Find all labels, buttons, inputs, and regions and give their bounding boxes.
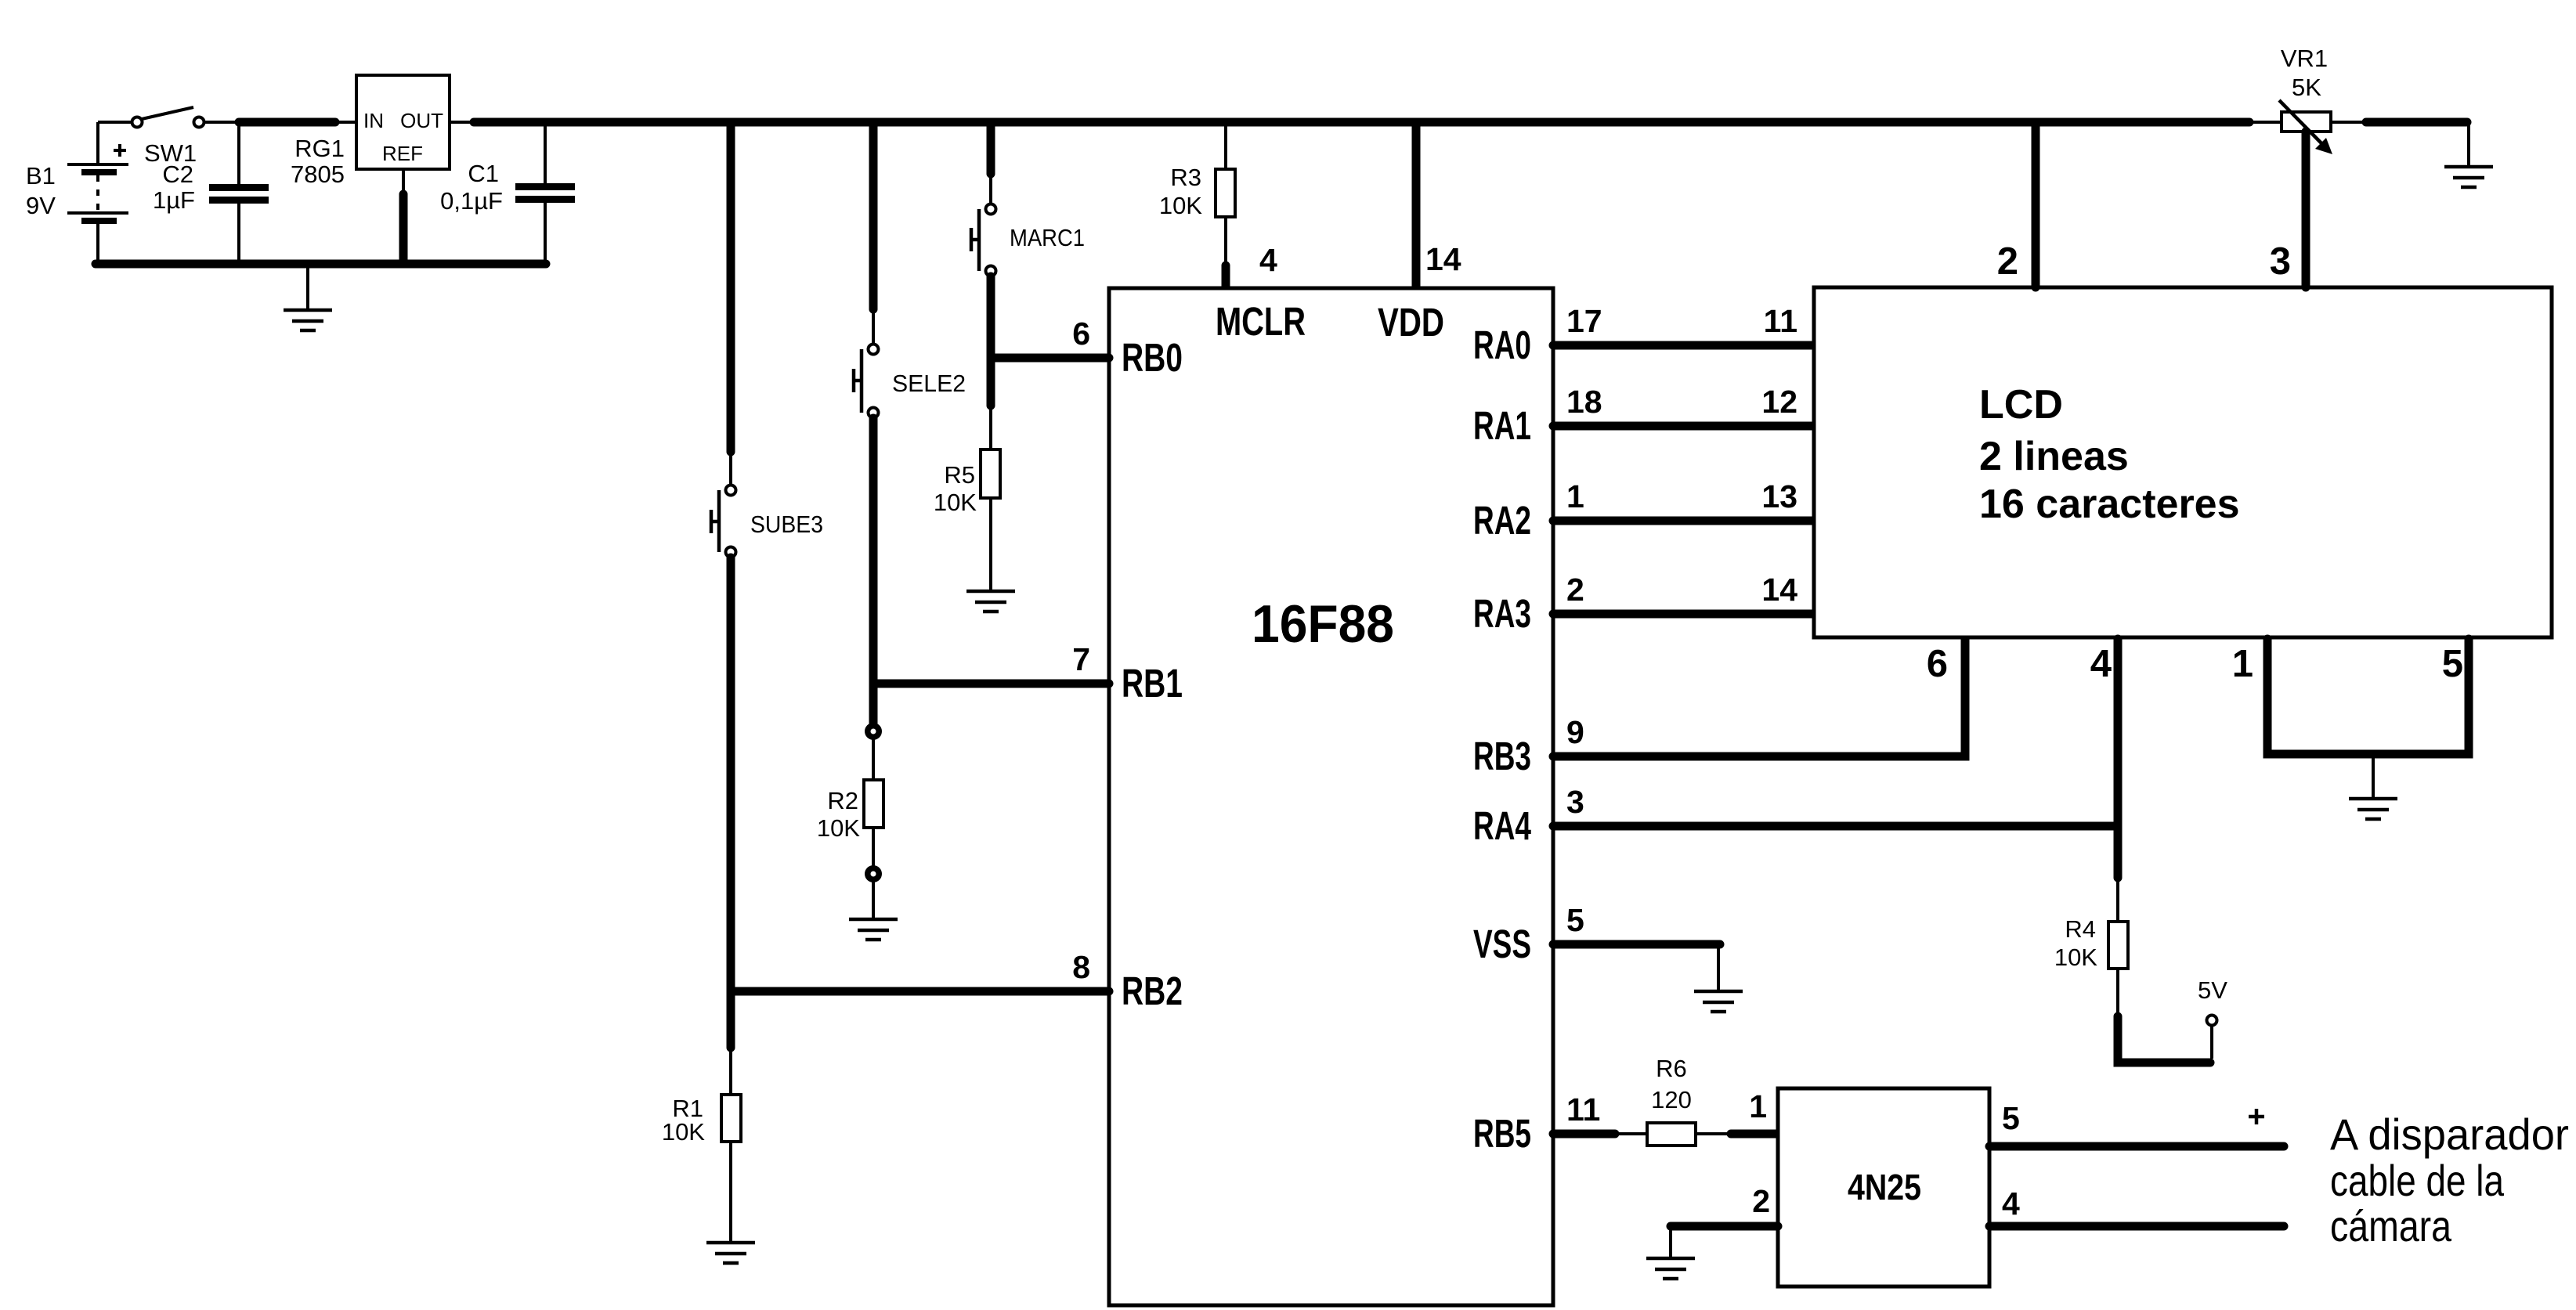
svg-text:VSS: VSS (1473, 922, 1531, 966)
wire to MARC1 button (989, 174, 992, 204)
ground rail wire (96, 260, 546, 269)
svg-text:13: 13 (1761, 478, 1797, 514)
potentiometer VR1 5K (2249, 100, 2364, 154)
svg-text:11: 11 (1566, 1092, 1600, 1128)
wire RB5 pin stub (1553, 1130, 1615, 1139)
svg-text:RA2: RA2 (1473, 498, 1531, 543)
switch SW1 (132, 107, 204, 128)
svg-text:RB3: RB3 (1473, 734, 1531, 778)
svg-text:3: 3 (2270, 240, 2291, 283)
wire LCD pins 1 and 5 bracket (2267, 639, 2469, 754)
svg-text:IN: IN (363, 109, 384, 132)
svg-text:R3: R3 (1170, 164, 1201, 191)
svg-text:RA4: RA4 (1473, 803, 1531, 848)
junction dot upper (865, 723, 882, 740)
svg-text:14: 14 (1761, 572, 1797, 608)
svg-text:4: 4 (1259, 242, 1277, 278)
wire LCD pin 2 from rail (2032, 122, 2040, 287)
svg-text:LCD: LCD (1979, 382, 2063, 428)
wire dot to ground (872, 882, 875, 919)
wire 4N25 pin 5 output (1989, 1142, 2284, 1151)
wire SUBE3 to RB2 and down (727, 558, 735, 1048)
wire RG1 REF to ground rail (402, 169, 405, 262)
svg-text:16F88: 16F88 (1252, 594, 1394, 654)
svg-text:cámara: cámara (2330, 1201, 2452, 1250)
svg-text:MCLR: MCLR (1216, 299, 1306, 344)
svg-text:10K: 10K (662, 1118, 705, 1146)
wire R6 to 4N25 pin 1 (1696, 1132, 1778, 1135)
svg-text:RA1: RA1 (1473, 403, 1531, 448)
svg-text:5: 5 (1566, 902, 1584, 938)
svg-text:7805: 7805 (291, 161, 345, 188)
svg-text:B1: B1 (26, 162, 56, 189)
svg-text:17: 17 (1566, 303, 1602, 339)
wire RA2 pin line (1553, 517, 1814, 525)
svg-text:120: 120 (1651, 1086, 1692, 1113)
ground symbol 4N25 (1646, 1258, 1695, 1279)
wire VDD from rail (1412, 122, 1421, 287)
svg-text:REF: REF (382, 142, 423, 165)
wire to R1 (729, 1048, 732, 1095)
wire VSS to ground (1717, 944, 1720, 991)
resistor R4 10K (2108, 922, 2128, 969)
svg-text:14: 14 (1425, 241, 1461, 277)
svg-text:RA0: RA0 (1473, 323, 1531, 367)
svg-text:1: 1 (1749, 1088, 1767, 1124)
label plus output (2249, 1109, 2264, 1124)
wire RA1 pin line (1553, 422, 1814, 431)
svg-text:9: 9 (1566, 714, 1584, 750)
wire R2 to lower dot (872, 828, 875, 866)
optocoupler U2 4N25 box (1778, 1088, 1989, 1287)
svg-text:4: 4 (2090, 643, 2112, 685)
wire dot to R2 (872, 739, 875, 780)
svg-text:3: 3 (1566, 784, 1584, 820)
svg-text:R6: R6 (1656, 1055, 1687, 1082)
svg-text:10K: 10K (2054, 944, 2097, 971)
svg-text:VR1: VR1 (2281, 45, 2328, 72)
ground symbol R1 (706, 1243, 755, 1263)
svg-text:6: 6 (1927, 643, 1948, 685)
svg-text:R2: R2 (827, 787, 858, 814)
pushbutton SELE2 (854, 345, 879, 418)
wire SELE2 branch from rail (869, 122, 878, 309)
ground symbol VR1 (2444, 167, 2493, 187)
wire LCD pin 4 down (2114, 639, 2123, 878)
svg-text:10K: 10K (1159, 192, 1202, 219)
svg-text:2: 2 (1566, 572, 1584, 608)
svg-text:8: 8 (1072, 949, 1090, 985)
svg-text:4: 4 (2002, 1185, 2020, 1222)
svg-text:5: 5 (2442, 643, 2463, 685)
wire SUBE3 branch from rail (727, 122, 735, 452)
ground symbol below rail (284, 264, 332, 330)
svg-text:RB5: RB5 (1473, 1111, 1531, 1156)
battery plus sign (114, 144, 126, 157)
IC U1 16F88 box (1109, 288, 1553, 1305)
svg-text:1µF: 1µF (153, 186, 195, 214)
wire RB3 pin line (1553, 639, 1965, 756)
wire to SUBE3 button (729, 452, 732, 485)
wire RB1 pin line (873, 680, 1109, 688)
svg-text:RG1: RG1 (294, 135, 345, 162)
svg-text:7: 7 (1072, 641, 1090, 677)
wire R5 to ground (989, 498, 992, 591)
wire 5V top rail main (474, 118, 2249, 127)
svg-text:RB0: RB0 (1122, 335, 1183, 380)
wire RA3 pin line (1553, 610, 1814, 619)
svg-text:2 lineas: 2 lineas (1979, 434, 2129, 479)
wire pin 2 to ground (1669, 1226, 1672, 1258)
svg-text:OUT: OUT (400, 109, 443, 132)
capacitor C2 1uF (209, 122, 269, 264)
svg-text:10K: 10K (934, 489, 977, 516)
svg-text:C2: C2 (162, 161, 193, 188)
wire R3 branch from rail (1224, 122, 1227, 169)
svg-text:C1: C1 (468, 160, 499, 187)
svg-text:18: 18 (1566, 384, 1602, 420)
terminal 5V (2207, 1016, 2217, 1026)
ground symbol VSS (1694, 991, 1743, 1012)
wire MCLR pin stub (1222, 265, 1230, 287)
wire MARC1 branch from rail (987, 122, 995, 174)
wire 4N25 pin 2 (1671, 1222, 1778, 1231)
wire MARC1 to RB0 junction (987, 276, 995, 406)
wire RB5 to R6 (1615, 1132, 1647, 1135)
svg-text:SUBE3: SUBE3 (750, 511, 823, 538)
svg-text:RB2: RB2 (1122, 969, 1183, 1013)
svg-text:5V: 5V (2198, 976, 2227, 1004)
pushbutton SUBE3 (711, 485, 736, 558)
svg-text:SELE2: SELE2 (892, 370, 966, 397)
wire RG1 OUT to rail (450, 121, 471, 124)
capacitor C1 0.1uF (515, 122, 575, 264)
ground symbol R2 (849, 919, 898, 940)
resistor R2 10K (864, 780, 883, 828)
wire to SELE2 button (872, 309, 875, 344)
svg-text:1: 1 (2232, 643, 2253, 685)
ground symbol R5 (966, 591, 1015, 612)
svg-text:12: 12 (1761, 384, 1797, 420)
resistor R6 120 (1647, 1123, 1696, 1146)
svg-text:11: 11 (1764, 303, 1797, 339)
resistor R5 10K (981, 449, 1000, 498)
wire R3 to MCLR (1224, 217, 1227, 262)
svg-text:2: 2 (1997, 240, 2018, 283)
svg-text:VDD: VDD (1378, 300, 1444, 345)
wire to R5 (989, 406, 992, 449)
pushbutton MARC1 (971, 204, 996, 276)
svg-text:1: 1 (1566, 478, 1584, 514)
wire RB0 pin line (991, 354, 1109, 363)
resistor R1 10K (721, 1095, 741, 1142)
svg-text:10K: 10K (817, 814, 860, 842)
svg-text:6: 6 (1072, 316, 1090, 352)
wire switch to rail (204, 121, 237, 124)
LCD display box (1814, 287, 2552, 637)
wire rail to RG1 IN (335, 121, 356, 124)
wire 5V top rail left segment (239, 118, 335, 127)
svg-text:4N25: 4N25 (1848, 1167, 1921, 1207)
svg-text:0,1µF: 0,1µF (440, 187, 503, 215)
wire R1 to ground (729, 1142, 732, 1243)
svg-text:2: 2 (1752, 1183, 1770, 1219)
wire to R4 (2116, 878, 2119, 922)
resistor R3 10K (1216, 169, 1235, 217)
wire SELE2 to RB1 junction (869, 418, 878, 724)
svg-text:16 caracteres: 16 caracteres (1979, 482, 2240, 527)
ground symbol LCD (2349, 799, 2397, 819)
svg-text:5: 5 (2002, 1100, 2020, 1136)
wire VSS pin line (1553, 940, 1720, 949)
wire 4N25 pin 4 output (1989, 1222, 2284, 1231)
svg-text:9V: 9V (26, 192, 56, 219)
wire R4 to 5V terminal (2118, 969, 2212, 1063)
regulator RG1 7805 box (356, 75, 450, 169)
svg-text:MARC1: MARC1 (1010, 224, 1085, 251)
battery B1 9V (67, 122, 128, 264)
wire VR1 wiper to LCD pin 3 (2302, 132, 2310, 287)
wire VR1 to ground (2366, 122, 2469, 167)
svg-text:RB1: RB1 (1122, 661, 1183, 706)
wire bracket to ground (2372, 754, 2375, 799)
svg-text:R4: R4 (2065, 915, 2096, 943)
wire battery to switch (98, 121, 132, 124)
wire RA4 pin line (1553, 822, 2118, 831)
svg-text:RA3: RA3 (1473, 591, 1531, 636)
svg-text:A disparador: A disparador (2330, 1110, 2569, 1159)
wire RB2 pin line (731, 987, 1109, 996)
svg-text:5K: 5K (2292, 74, 2321, 101)
junction dot lower (865, 865, 882, 882)
wire RA0 pin line (1553, 341, 1814, 350)
svg-text:cable de la: cable de la (2330, 1156, 2505, 1205)
svg-text:R5: R5 (944, 461, 975, 489)
